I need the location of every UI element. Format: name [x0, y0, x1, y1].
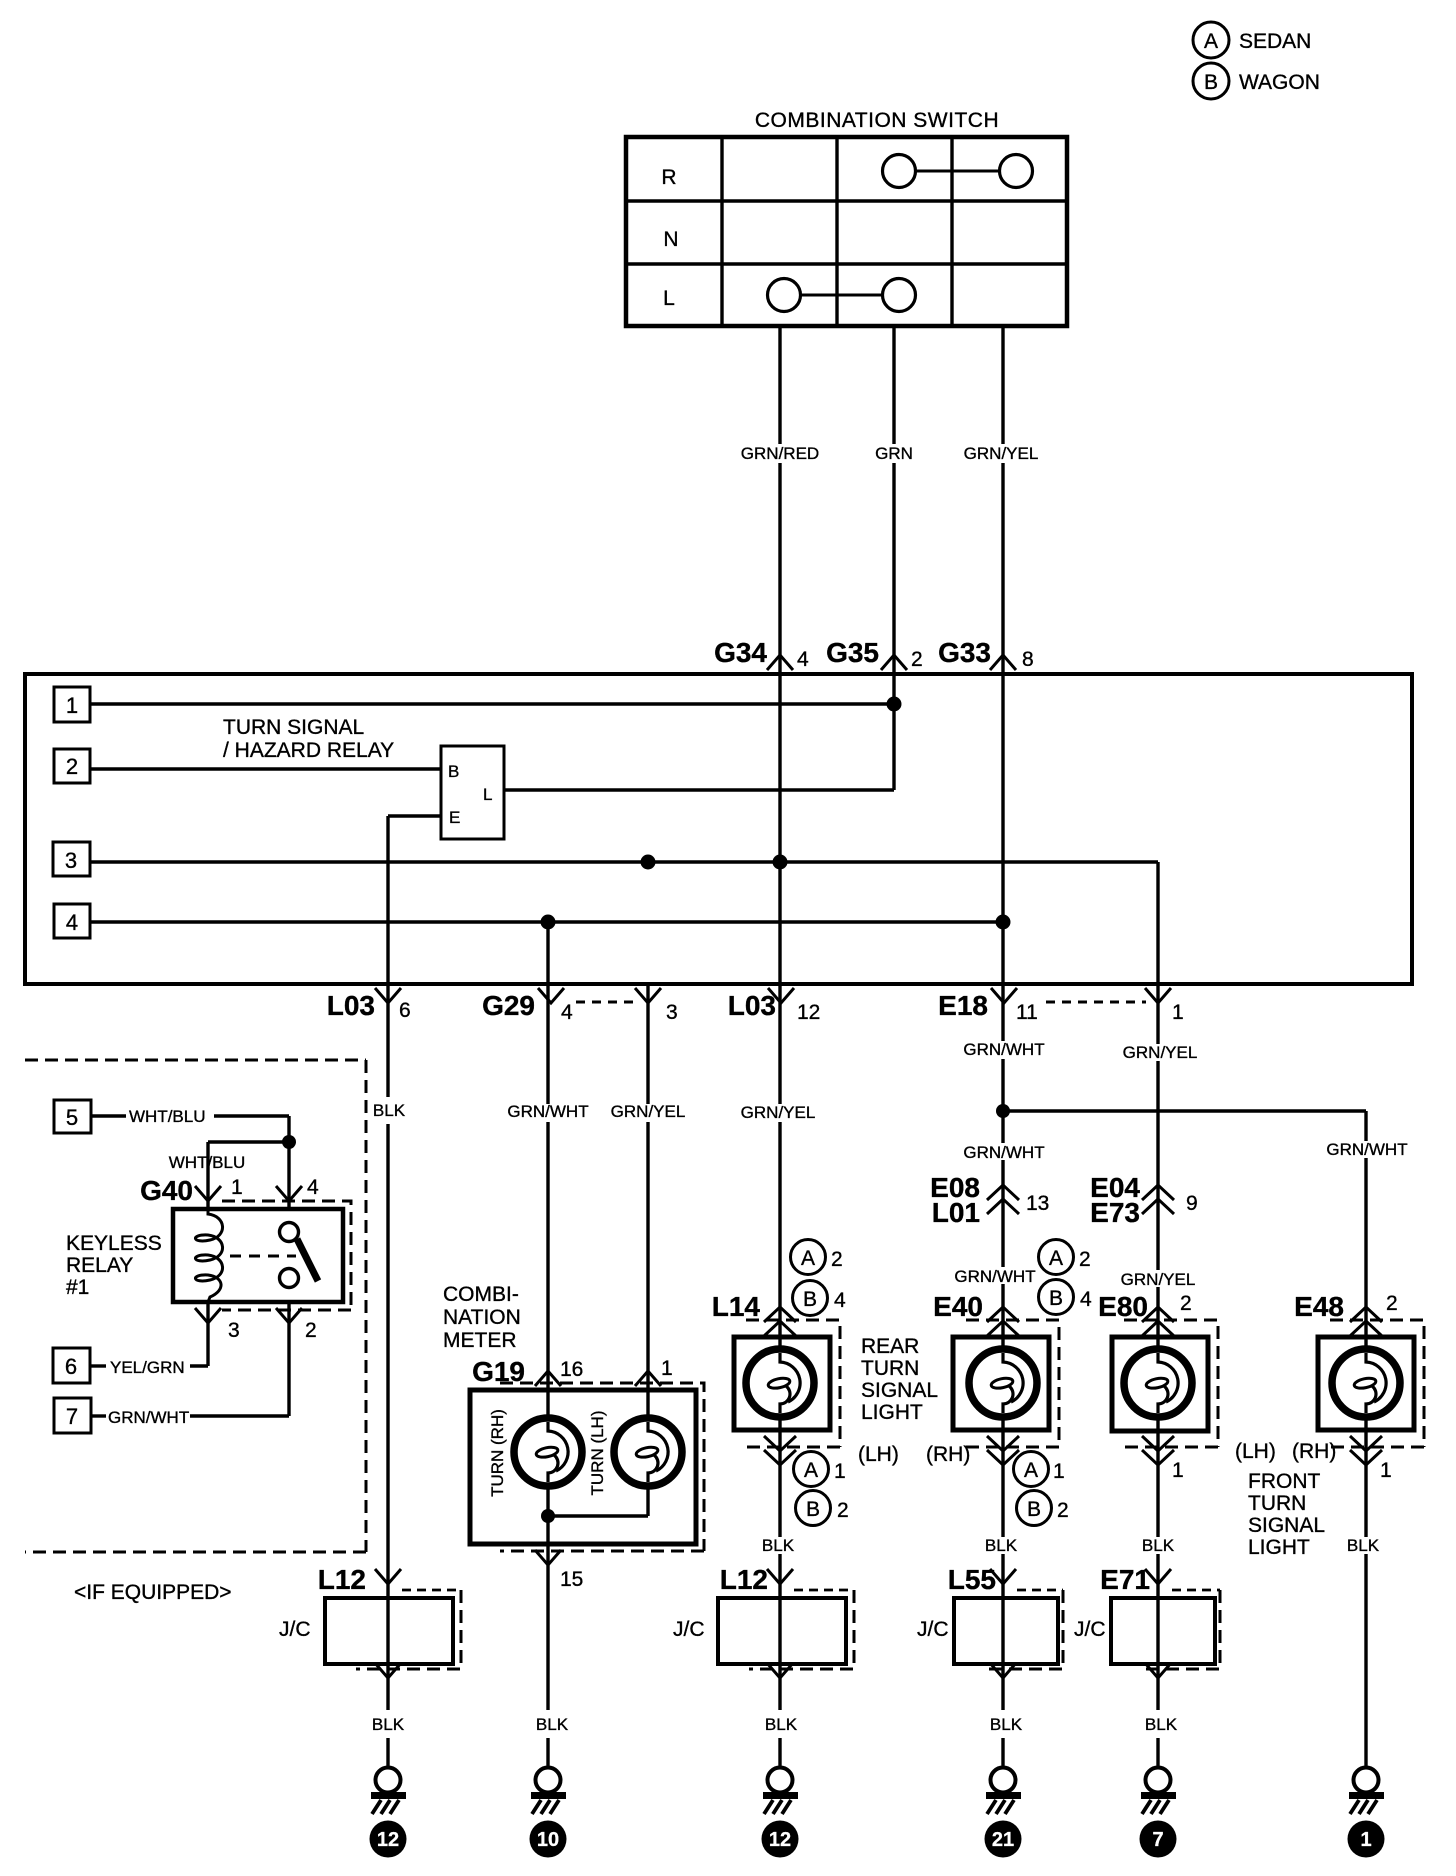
svg-text:SEDAN: SEDAN [1239, 30, 1311, 53]
junction connector L12 (BLK) [318, 1564, 461, 1595]
terminal square 6 [53, 1348, 90, 1383]
label REAR TURN SIGNAL LIGHT [861, 1335, 938, 1424]
dashed link G29-4 to 3 [576, 1001, 639, 1004]
J/C box E71 [1074, 1590, 1220, 1669]
svg-text:N: N [663, 228, 678, 251]
svg-text:GRN/YEL: GRN/YEL [1121, 1270, 1196, 1289]
connector pin 1 [1145, 988, 1184, 1024]
bulb E80 [1124, 1349, 1192, 1417]
svg-text:GRN: GRN [875, 444, 913, 463]
svg-text:GRN/WHT: GRN/WHT [963, 1040, 1044, 1059]
svg-text:4: 4 [1080, 1288, 1092, 1311]
svg-text:2: 2 [305, 1319, 317, 1342]
svg-text:1: 1 [66, 693, 78, 718]
bulb E40 [969, 1349, 1037, 1417]
ground number 12 (keyless) [370, 1821, 407, 1858]
svg-text:WAGON: WAGON [1239, 71, 1320, 94]
svg-text:KEYLESS: KEYLESS [66, 1232, 162, 1255]
svg-text:BLK: BLK [762, 1536, 795, 1555]
rear turn signal light RH dashed outline [966, 1320, 1059, 1447]
svg-text:B: B [448, 762, 459, 781]
svg-text:RELAY: RELAY [66, 1254, 133, 1277]
svg-text:2: 2 [911, 648, 923, 671]
bulb TURN RH [514, 1418, 582, 1486]
svg-text:12: 12 [797, 1001, 820, 1024]
svg-text:(LH): (LH) [1235, 1440, 1276, 1463]
svg-text:1: 1 [1360, 1829, 1371, 1851]
svg-text:12: 12 [377, 1829, 399, 1851]
svg-text:GRN/YEL: GRN/YEL [611, 1102, 686, 1121]
svg-text:E80: E80 [1098, 1291, 1148, 1322]
meter wire 1 inside [646, 1390, 649, 1516]
connector G19 pins 16 1 [472, 1356, 673, 1387]
wire inside L14 box [778, 1337, 781, 1430]
J/C box L55 [917, 1590, 1063, 1669]
wire terminal 1 to G35 [90, 702, 894, 705]
svg-text:REAR: REAR [861, 1335, 919, 1358]
svg-text:2: 2 [66, 754, 78, 779]
svg-text:TURN: TURN [861, 1357, 919, 1380]
connector below E48 pin 1 [1350, 1436, 1392, 1482]
wire G34 inside box [778, 674, 781, 984]
svg-text:A: A [1049, 1247, 1063, 1270]
wire pin 2 to terminal 7 [91, 1302, 289, 1416]
svg-text:SIGNAL: SIGNAL [1248, 1514, 1325, 1537]
junction dot wire3/G34 [773, 855, 788, 870]
svg-text:J/C: J/C [917, 1618, 949, 1641]
svg-text:2: 2 [1057, 1499, 1069, 1522]
svg-text:L14: L14 [712, 1291, 761, 1322]
connector below J/C L55 [990, 1663, 1016, 1678]
wire relay L to G35 wire [504, 788, 894, 791]
svg-text:B: B [1049, 1287, 1063, 1310]
svg-text:6: 6 [65, 1354, 77, 1379]
combination switch U1 box [626, 137, 1067, 326]
if-equipped dashed box [25, 1060, 366, 1552]
svg-text:4: 4 [561, 1001, 573, 1024]
wire inside E80 box [1156, 1337, 1159, 1431]
wire BLK from E to keyless area [386, 984, 389, 1768]
svg-text:BLK: BLK [372, 1715, 405, 1734]
ground number 10 [530, 1821, 567, 1858]
J/C box L12 (BLK) [279, 1590, 461, 1669]
wire terminal 3 [90, 862, 1158, 984]
meter pin 15 [535, 1550, 583, 1591]
svg-text:7: 7 [1152, 1829, 1163, 1851]
svg-text:GRN/YEL: GRN/YEL [964, 444, 1039, 463]
ground (meter) [531, 1768, 566, 1815]
svg-text:1: 1 [231, 1176, 243, 1199]
svg-text:TURN SIGNAL: TURN SIGNAL [223, 716, 364, 739]
svg-text:A: A [1024, 1459, 1038, 1482]
terminal square 5 [54, 1100, 91, 1133]
svg-text:16: 16 [560, 1358, 583, 1381]
svg-text:GRN/YEL: GRN/YEL [1123, 1043, 1198, 1062]
svg-text:B: B [1204, 71, 1218, 94]
wire GRN/YEL pin3 to meter 1 [646, 984, 649, 1516]
svg-text:A: A [1204, 30, 1218, 53]
svg-text:G33: G33 [938, 637, 991, 668]
connector L14 [712, 1291, 796, 1336]
wire inside E40 box [1001, 1337, 1004, 1430]
svg-text:(RH): (RH) [926, 1443, 970, 1466]
circled A pin 2 (L14) [791, 1240, 843, 1275]
svg-text:G35: G35 [826, 637, 879, 668]
junction connector E71 [1100, 1564, 1220, 1595]
wire relay E [388, 816, 441, 984]
svg-text:BLK: BLK [1142, 1536, 1175, 1555]
relay actuation dashed line [230, 1255, 296, 1258]
svg-text:<IF EQUIPPED>: <IF EQUIPPED> [74, 1581, 232, 1604]
ground (E40) [986, 1768, 1021, 1815]
svg-text:METER: METER [443, 1329, 517, 1352]
svg-text:GRN/WHT: GRN/WHT [963, 1143, 1044, 1162]
switch contacts row R [883, 155, 1033, 188]
wire inside E48 box [1364, 1337, 1367, 1430]
connector below E40 [987, 1436, 1019, 1465]
svg-text:L55: L55 [948, 1564, 996, 1595]
svg-text:A: A [801, 1247, 815, 1270]
connector G34 pin 4 [714, 637, 809, 671]
circled B pin 4 (E40) [1039, 1280, 1093, 1315]
svg-text:1: 1 [1053, 1460, 1065, 1483]
terminal square 7 [54, 1398, 91, 1433]
wire terminal 4 [90, 920, 1003, 923]
svg-text:B: B [1027, 1498, 1041, 1521]
junction connector L12 (L14) [720, 1564, 854, 1595]
ground number 12 (L14) [762, 1821, 799, 1858]
svg-text:BLK: BLK [1347, 1536, 1380, 1555]
circled B pin 2 (E40) [1017, 1491, 1069, 1526]
meter junction dot [541, 1509, 555, 1523]
connector G29 pin 4 [482, 988, 573, 1024]
svg-text:GRN/WHT: GRN/WHT [1326, 1140, 1407, 1159]
terminal square 1 [54, 687, 90, 722]
label COMBINATION METER [443, 1283, 521, 1352]
ground number 21 [985, 1821, 1022, 1858]
combination meter box [470, 1390, 696, 1544]
dashed link E18-11 to 1 [1046, 1001, 1146, 1004]
svg-text:13: 13 [1026, 1192, 1049, 1215]
svg-text:B: B [803, 1288, 817, 1311]
svg-text:2: 2 [1079, 1248, 1091, 1271]
svg-text:G40: G40 [140, 1175, 193, 1206]
svg-text:TURN (RH): TURN (RH) [488, 1409, 507, 1497]
wire GRN/YEL pin1 down to E80 [1156, 984, 1159, 1768]
meter bulb link wire [548, 1514, 648, 1517]
wire G33 inside box [1001, 674, 1004, 984]
junction dot GRN/WHT branch [996, 1104, 1010, 1118]
ground (E80) [1141, 1768, 1176, 1815]
svg-text:J/C: J/C [673, 1618, 705, 1641]
wire from 5 WHT/BLU [91, 1116, 289, 1209]
junction connector L55 [948, 1564, 1063, 1595]
relay lower pins 3 2 [195, 1308, 317, 1342]
svg-text:1: 1 [1172, 1459, 1184, 1482]
svg-text:11: 11 [1016, 1001, 1038, 1024]
svg-text:L03: L03 [327, 990, 375, 1021]
svg-text:4: 4 [307, 1176, 319, 1199]
svg-text:5: 5 [66, 1105, 78, 1130]
connector E48 pin 2 [1294, 1291, 1398, 1336]
wire terminal 2 to relay B [90, 767, 441, 770]
svg-text:2: 2 [831, 1248, 843, 1271]
junction dot wire4/G29 [541, 915, 556, 930]
svg-text:E18: E18 [938, 990, 988, 1021]
circled B pin 4 (L14) [793, 1281, 847, 1316]
connector G40 pins 1 4 [140, 1175, 319, 1206]
switch contacts row L [768, 279, 916, 312]
junction dot wire4/G33 [996, 915, 1011, 930]
svg-text:GRN/YEL: GRN/YEL [741, 1103, 816, 1122]
svg-text:3: 3 [65, 848, 77, 873]
svg-text:COMBINATION SWITCH: COMBINATION SWITCH [755, 109, 999, 132]
meter wire 16 inside [546, 1390, 549, 1544]
svg-text:L12: L12 [318, 1564, 366, 1595]
J/C box L12 (L14) [673, 1590, 854, 1669]
svg-text:L03: L03 [728, 990, 776, 1021]
terminal square 4 [54, 904, 90, 938]
svg-text:GRN/RED: GRN/RED [741, 444, 819, 463]
svg-text:15: 15 [560, 1568, 583, 1591]
rear turn signal light RH box [953, 1337, 1049, 1430]
connector below J/C L12 (BLK) [375, 1663, 401, 1678]
svg-text:2: 2 [837, 1499, 849, 1522]
svg-text:B: B [806, 1498, 820, 1521]
connector below L14 [764, 1436, 796, 1465]
bulb TURN LH [614, 1418, 682, 1486]
circled B pin 2 (L14) [796, 1491, 849, 1526]
svg-text:TURN: TURN [1248, 1492, 1306, 1515]
front turn signal light RH box [1318, 1337, 1414, 1430]
ground (keyless circuit) [371, 1768, 406, 1815]
connector G35 pin 2 [826, 637, 923, 671]
junction dot keyless [282, 1135, 296, 1149]
svg-text:2: 2 [1386, 1292, 1398, 1315]
svg-text:3: 3 [666, 1001, 678, 1024]
wire branch to G40 pin 1 [208, 1142, 289, 1209]
connector G33 pin 8 [938, 637, 1034, 671]
svg-text:J/C: J/C [279, 1618, 311, 1641]
junction block big box [25, 674, 1412, 984]
svg-text:9: 9 [1186, 1192, 1198, 1215]
svg-text:E: E [449, 808, 460, 827]
svg-text:LIGHT: LIGHT [861, 1401, 923, 1424]
svg-text:G34: G34 [714, 637, 767, 668]
wire GRN/WHT G29-4 to meter 16 [546, 984, 549, 1768]
connector below J/C E71 [1145, 1663, 1171, 1678]
svg-text:COMBI-: COMBI- [443, 1283, 519, 1306]
ground number 7 [1140, 1821, 1177, 1858]
svg-text:WHT/BLU: WHT/BLU [129, 1107, 206, 1126]
junction dot wire1/G35 [887, 697, 902, 712]
svg-text:J/C: J/C [1074, 1618, 1106, 1641]
svg-text:1: 1 [1380, 1459, 1392, 1482]
svg-text:1: 1 [834, 1460, 846, 1483]
circled A pin 2 (E40) [1039, 1240, 1091, 1275]
rear turn signal light LH box [734, 1337, 830, 1430]
wire GRN/YEL from switch to G33 [1001, 326, 1004, 674]
svg-text:4: 4 [834, 1289, 846, 1312]
svg-text:2: 2 [1180, 1292, 1192, 1315]
svg-text:8: 8 [1022, 648, 1034, 671]
connector E08/L01 pin 13 [930, 1172, 1049, 1228]
relay switch contacts [280, 1223, 319, 1288]
connector E80 pin 2 [1098, 1291, 1192, 1336]
svg-text:L12: L12 [720, 1564, 768, 1595]
label KEYLESS RELAY #1 [66, 1232, 162, 1299]
combination meter dashed outline [500, 1383, 704, 1551]
legend circle B WAGON [1193, 63, 1320, 99]
front turn signal light LH dashed outline [1124, 1320, 1218, 1447]
svg-text:21: 21 [992, 1829, 1014, 1851]
circled A pin 1 (E40) [1014, 1452, 1065, 1487]
circled A pin 1 (L14) [794, 1452, 846, 1487]
svg-text:E73: E73 [1090, 1197, 1140, 1228]
front turn signal light RH dashed outline [1330, 1320, 1424, 1447]
svg-text:(LH): (LH) [858, 1443, 899, 1466]
ground (E48) [1349, 1768, 1384, 1815]
svg-text:E48: E48 [1294, 1291, 1344, 1322]
svg-text:YEL/GRN: YEL/GRN [110, 1358, 185, 1377]
svg-text:6: 6 [399, 999, 411, 1022]
svg-text:1: 1 [1172, 1001, 1184, 1024]
svg-text:BLK: BLK [985, 1536, 1018, 1555]
front turn signal light LH box [1112, 1337, 1208, 1431]
legend circle A SEDAN [1193, 22, 1311, 58]
svg-text:GRN/WHT: GRN/WHT [507, 1102, 588, 1121]
connector E40 [933, 1291, 1019, 1336]
svg-text:GRN/WHT: GRN/WHT [954, 1267, 1035, 1286]
svg-text:LIGHT: LIGHT [1248, 1536, 1310, 1559]
label FRONT TURN SIGNAL LIGHT [1248, 1470, 1325, 1559]
connector E04/E73 pin 9 [1090, 1172, 1198, 1228]
terminal square 2 [54, 749, 90, 783]
svg-text:4: 4 [797, 648, 809, 671]
svg-text:SIGNAL: SIGNAL [861, 1379, 938, 1402]
svg-text:NATION: NATION [443, 1306, 521, 1329]
wire GRN/YEL L03-12 to L14 [778, 984, 781, 1768]
svg-text:7: 7 [66, 1404, 78, 1429]
svg-text:#1: #1 [66, 1276, 89, 1299]
bulb L14 [746, 1349, 814, 1417]
svg-text:3: 3 [228, 1319, 240, 1342]
label turn signal hazard relay [223, 716, 394, 762]
svg-text:BLK: BLK [536, 1715, 569, 1734]
keyless relay #1 box [173, 1209, 343, 1302]
svg-text:/ HAZARD RELAY: / HAZARD RELAY [223, 739, 394, 762]
wire G29 down from wire4 [546, 922, 549, 984]
svg-text:WHT/BLU: WHT/BLU [169, 1153, 246, 1172]
connector L03 pin 12 [728, 988, 821, 1024]
svg-text:GRN/WHT: GRN/WHT [108, 1408, 189, 1427]
svg-text:R: R [661, 166, 676, 189]
svg-text:TURN (LH): TURN (LH) [588, 1411, 607, 1496]
connector below J/C L12 (L14) [767, 1663, 793, 1678]
bulb E48 [1332, 1349, 1400, 1417]
svg-text:12: 12 [769, 1829, 791, 1851]
wire branch to E48 [1003, 1111, 1366, 1768]
svg-text:4: 4 [66, 910, 78, 935]
relay connector dashed outline [222, 1201, 351, 1310]
ground number 1 [1348, 1821, 1385, 1858]
svg-text:FRONT: FRONT [1248, 1470, 1320, 1493]
connector L03 pin 6 [327, 988, 411, 1022]
svg-text:BLK: BLK [990, 1715, 1023, 1734]
connector E18 pin 11 [938, 988, 1038, 1024]
relay coil [195, 1209, 222, 1302]
svg-text:10: 10 [537, 1829, 559, 1851]
wire GRN/WHT E18-11 down [1001, 984, 1004, 1768]
wire GRN/RED from switch to G34 [778, 326, 781, 674]
svg-text:BLK: BLK [1145, 1715, 1178, 1734]
rear turn signal light LH dashed outline [746, 1320, 840, 1447]
wire GRN from switch to relay L [892, 326, 895, 790]
connector pin 3 [635, 988, 678, 1024]
svg-text:(RH): (RH) [1292, 1440, 1336, 1463]
svg-text:L: L [663, 287, 675, 310]
svg-text:E71: E71 [1100, 1564, 1150, 1595]
terminal square 3 [53, 842, 90, 876]
svg-text:E40: E40 [933, 1291, 983, 1322]
svg-text:L01: L01 [932, 1197, 980, 1228]
svg-text:BLK: BLK [373, 1101, 406, 1120]
turn signal / hazard relay box [441, 746, 504, 839]
svg-text:BLK: BLK [765, 1715, 798, 1734]
svg-text:L: L [483, 785, 492, 804]
connector below E80 pin 1 [1142, 1436, 1184, 1482]
junction dot wire3/G29-3 [641, 855, 656, 870]
svg-text:1: 1 [661, 1357, 673, 1380]
ground (L14) [763, 1768, 798, 1815]
svg-text:G19: G19 [472, 1356, 525, 1387]
svg-text:G29: G29 [482, 990, 535, 1021]
wire pin 3 to terminal 6 [91, 1302, 208, 1366]
svg-text:A: A [804, 1459, 818, 1482]
